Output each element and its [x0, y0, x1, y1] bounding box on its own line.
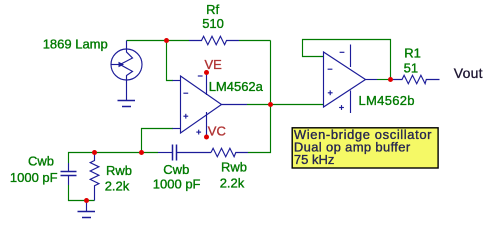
junction dot ground node [84, 198, 89, 203]
svg-text:VE: VE [205, 57, 223, 72]
ground at bottom of wien parallel RC [78, 201, 96, 218]
opamp b bottom power pin [350, 91, 352, 114]
svg-text:510: 510 [202, 16, 224, 31]
svg-text:Rwb: Rwb [221, 160, 247, 175]
wire series branch left of cap [142, 152, 159, 154]
lamp B1 1869 [111, 41, 142, 101]
wire opamp b feedback loop [303, 40, 391, 80]
opamp a VC pin plus marker [196, 130, 201, 135]
capacitor Cwb parallel (left, 1000 pF) [61, 163, 77, 185]
op-amp U1a triangle [181, 76, 222, 133]
capacitor Cwb series (mid, 1000 pF) [158, 145, 211, 161]
opamp a plus input marker [183, 114, 188, 119]
svg-text:2.2k: 2.2k [220, 175, 245, 190]
svg-text:51: 51 [404, 61, 418, 76]
op-amp U1b triangle [324, 52, 366, 107]
svg-text:Cwb: Cwb [28, 153, 54, 168]
opamp a minus input marker [183, 92, 188, 94]
svg-text:R1: R1 [404, 45, 421, 60]
svg-text:1869 Lamp: 1869 Lamp [43, 37, 108, 52]
opamp b output lead [366, 79, 378, 81]
opamp a VC power pin [206, 112, 208, 137]
resistor Rwb series (mid, 2.2k) [211, 148, 248, 156]
svg-text:LM4562b: LM4562b [359, 93, 415, 108]
svg-text:Cwb: Cwb [163, 162, 189, 177]
wire left rail to parallel RC [69, 153, 142, 164]
svg-text:VC: VC [208, 124, 226, 139]
ground under lamp [118, 101, 136, 107]
opamp a non-inverting pin stub [173, 128, 181, 130]
svg-text:75 kHz: 75 kHz [294, 152, 334, 167]
wire bottom of parallel RC to ground node [69, 185, 95, 201]
opamp a output lead [222, 104, 248, 106]
junction dot left rail Rwb top [92, 150, 97, 155]
wire Rf right to feedback corner [239, 40, 271, 42]
svg-text:1000 pF: 1000 pF [10, 170, 58, 185]
wire node to opamp b plus input [271, 104, 324, 106]
wire top rail from lamp to Rf [127, 40, 190, 42]
junction dot series branch [139, 150, 144, 155]
resistor Rf [189, 36, 239, 44]
annotation box [292, 128, 438, 168]
wire opamp b output to R1 node [377, 79, 391, 81]
svg-text:Rf: Rf [206, 2, 219, 17]
opamp b bottom power plus marker [339, 105, 344, 110]
opamp b minus input marker [328, 68, 333, 70]
wire node down to wien series branch [248, 105, 271, 153]
opamp a VE power pin [206, 73, 208, 96]
wire opamp a output to node [247, 104, 271, 106]
node VE dot [204, 70, 209, 75]
wire inverting input drop [167, 41, 174, 81]
junction dot opamp b output [388, 77, 393, 82]
opamp b plus input marker [328, 90, 333, 95]
opamp a inverting pin stub [173, 80, 181, 82]
wire feedback drop to output node [270, 41, 272, 105]
node VC dot [204, 135, 209, 140]
resistor R1 [391, 75, 440, 83]
svg-text:LM4562a: LM4562a [209, 79, 264, 94]
svg-text:Rwb: Rwb [106, 163, 132, 178]
opamp b top power pin [350, 45, 352, 68]
svg-text:1000 pF: 1000 pF [153, 177, 201, 192]
resistor Rwb parallel (left, 2.2k) vertical [90, 153, 99, 201]
svg-text:Vout: Vout [454, 65, 483, 81]
opamp b top power minus marker [340, 51, 345, 53]
svg-text:2.2k: 2.2k [105, 178, 130, 193]
wire plus input riser [142, 129, 174, 153]
junction dot top rail [164, 38, 169, 43]
opamp a VE pin minus marker [198, 75, 203, 77]
junction dot opamp a output node [268, 102, 273, 107]
